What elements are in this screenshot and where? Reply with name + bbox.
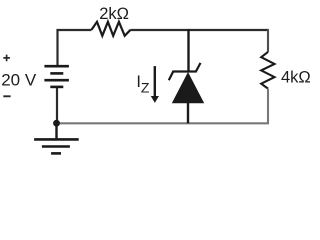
- wire zener bottom branch: [187, 103, 189, 123]
- resistor R1 2kΩ zigzag: [92, 22, 131, 36]
- wire right lower and bottom to ground node: [57, 89, 269, 124]
- wire top-left from battery up and right to R1: [58, 30, 92, 66]
- svg-text:4kΩ: 4kΩ: [281, 68, 311, 86]
- wire right upper segment: [267, 29, 269, 52]
- battery V1 plate short bottom: [50, 86, 63, 89]
- ground stub: [55, 123, 57, 139]
- junction dot ground node: [53, 120, 60, 127]
- resistor R2 4kΩ zigzag: [261, 52, 274, 89]
- arrow IZ downward: [154, 66, 156, 97]
- battery V1 plate short: [50, 72, 63, 75]
- svg-text:Z: Z: [141, 79, 150, 95]
- wire battery bottom to ground node: [56, 88, 58, 123]
- battery V1 plate long: [44, 79, 69, 82]
- ground bar long: [34, 138, 79, 141]
- battery V1 plate long top: [44, 65, 69, 68]
- label + polarity: [3, 55, 10, 62]
- ground bar short: [51, 152, 61, 155]
- label − polarity: [3, 95, 10, 97]
- zener diode D1 cathode bar with bent tails: [169, 63, 201, 80]
- zener diode D1 anode triangle: [172, 72, 204, 103]
- wire top from R1 to right corner: [131, 29, 269, 31]
- wire zener top branch: [187, 29, 189, 72]
- svg-text:20 V: 20 V: [1, 71, 37, 90]
- svg-text:2kΩ: 2kΩ: [99, 5, 129, 23]
- ground bar middle: [42, 145, 70, 148]
